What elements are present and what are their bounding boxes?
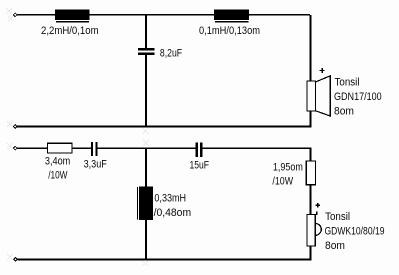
wire top rail section1 xyxy=(17,14,310,16)
svg-text:3,3uF: 3,3uF xyxy=(84,158,107,170)
speaker SP1 cone xyxy=(316,76,331,116)
wire capacitor branch lower xyxy=(145,55,147,127)
svg-text:8,2uF: 8,2uF xyxy=(160,48,182,60)
svg-text:0,33mH: 0,33mH xyxy=(154,193,186,205)
wire R2 to SP2 xyxy=(310,185,312,215)
capacitor C3 plate 1 xyxy=(195,142,198,157)
capacitor C1 plate 2 xyxy=(138,53,154,56)
wire inductor branch xyxy=(145,149,147,259)
terminal T4 (bottom-left of section2) xyxy=(14,258,18,262)
speaker SP2 dome arc xyxy=(315,224,321,236)
svg-text:GDWK10/80/19: GDWK10/80/19 xyxy=(325,226,385,238)
speaker SP2 driver rect xyxy=(307,215,315,247)
wire right drop to speaker SP1 xyxy=(310,15,312,81)
terminal T1 (top-left input) xyxy=(13,13,17,17)
svg-text:Tonsil: Tonsil xyxy=(335,76,360,88)
wire bottom rail section1 xyxy=(17,126,312,128)
svg-text:2,2mH/0,1om: 2,2mH/0,1om xyxy=(41,25,99,37)
wire below SP2 xyxy=(310,246,312,259)
svg-text:/10W: /10W xyxy=(48,170,68,182)
capacitor C2 plate 2 xyxy=(95,142,97,156)
terminal T3 (input of section2) xyxy=(13,146,17,150)
svg-text:8om: 8om xyxy=(325,240,345,252)
capacitor C1 plate 1 xyxy=(138,48,154,50)
wire capacitor branch upper xyxy=(145,15,147,48)
svg-text:1,95om: 1,95om xyxy=(273,162,303,174)
wire between C2 and C3 xyxy=(98,147,196,149)
svg-text:8om: 8om xyxy=(334,106,354,118)
stub mark above SP2 xyxy=(316,212,317,215)
plus polarity mark SP1 xyxy=(320,68,325,73)
inductor L3 left line xyxy=(137,187,138,219)
inductor L1 underline xyxy=(56,21,89,22)
inductor L1 body xyxy=(55,9,90,20)
noise marks near terminals xyxy=(6,8,149,266)
svg-text:3,4om: 3,4om xyxy=(45,156,70,168)
plus polarity mark SP2 xyxy=(316,203,320,207)
svg-text:15uF: 15uF xyxy=(190,160,210,172)
terminal T2 (bottom-left of section1) xyxy=(13,125,17,129)
wire top rail section2 left xyxy=(17,147,91,149)
wire right drop to R2 xyxy=(310,149,312,162)
svg-text:0,1mH/0,13om: 0,1mH/0,13om xyxy=(199,25,260,37)
capacitor C3 plate 2 xyxy=(200,142,203,157)
wire below SP1 xyxy=(310,111,312,128)
wire right of C3 xyxy=(203,147,312,149)
inductor L2 body xyxy=(214,9,249,20)
svg-text:/0,48om: /0,48om xyxy=(154,207,192,219)
wire bottom rail section2 xyxy=(17,258,311,260)
resistor R1 xyxy=(47,143,72,153)
svg-text:Tonsil: Tonsil xyxy=(325,211,350,223)
speaker SP1 driver rect xyxy=(307,81,316,111)
resistor R2 xyxy=(306,161,315,185)
inductor L2 underline xyxy=(215,21,249,22)
inductor L3 body xyxy=(139,187,153,220)
svg-text:GDN17/100: GDN17/100 xyxy=(334,91,382,103)
svg-text:/10W: /10W xyxy=(272,176,293,188)
capacitor C2 plate 1 xyxy=(91,142,93,156)
